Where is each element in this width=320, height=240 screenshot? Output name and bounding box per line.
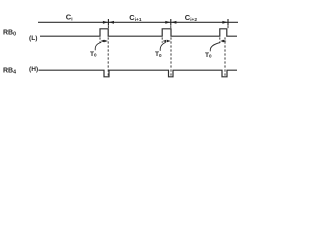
svg-text:Ci+2: Ci+2 [185,13,198,23]
svg-text:T0: T0 [90,51,97,58]
svg-text:RB0: RB0 [3,29,16,37]
svg-text:Ci+1: Ci+1 [129,13,142,23]
svg-text:T0: T0 [205,52,212,59]
svg-text:(H): (H) [29,66,38,73]
svg-text:RB4: RB4 [3,68,16,76]
svg-text:Ci: Ci [66,13,73,23]
svg-text:T0: T0 [155,51,162,58]
svg-text:(L): (L) [29,35,37,42]
